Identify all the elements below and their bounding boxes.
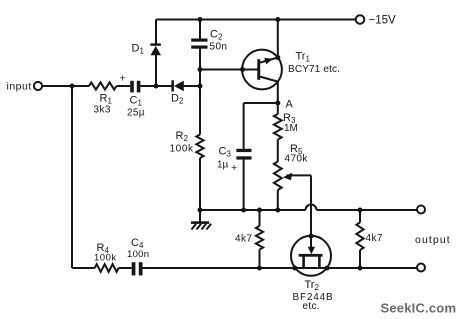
svg-text:50n: 50n (210, 42, 228, 53)
svg-text:−15V: −15V (369, 15, 397, 27)
svg-text:BCY71 etc.: BCY71 etc. (288, 64, 340, 75)
svg-text:100n: 100n (127, 249, 149, 260)
svg-text:input: input (7, 81, 32, 93)
svg-text:4k7: 4k7 (366, 233, 383, 244)
svg-text:SeekIC.com: SeekIC.com (381, 301, 457, 316)
svg-text:25µ: 25µ (127, 108, 145, 119)
svg-text:output: output (415, 234, 451, 246)
svg-text:4k7: 4k7 (235, 234, 252, 245)
svg-text:+: + (231, 162, 237, 174)
svg-text:etc.: etc. (303, 301, 320, 312)
svg-text:1µ: 1µ (217, 160, 229, 171)
svg-text:+: + (120, 73, 126, 85)
svg-text:100k: 100k (94, 253, 117, 264)
svg-text:100k: 100k (170, 144, 194, 155)
svg-text:1M: 1M (284, 123, 298, 134)
svg-text:A: A (286, 99, 294, 111)
svg-text:470k: 470k (285, 154, 309, 165)
svg-text:3k3: 3k3 (94, 105, 111, 116)
